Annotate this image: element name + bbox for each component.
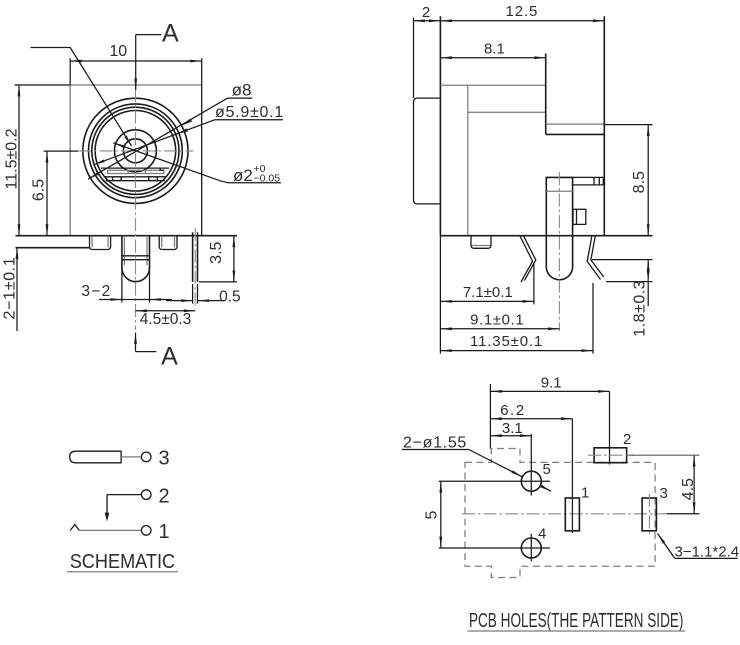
- svg-text:11.35±0.1: 11.35±0.1: [470, 333, 543, 350]
- svg-text:6.5: 6.5: [31, 179, 48, 201]
- shield tab square: [573, 209, 586, 224]
- barrel centerline: [558, 172, 560, 331]
- side inner horizontal line: [468, 111, 546, 113]
- pcb main centerline: [462, 513, 667, 515]
- left pin: [90, 236, 111, 250]
- contact plate gray band: [108, 170, 164, 173]
- housing box right edge: [201, 85, 203, 236]
- side body top edge: [440, 84, 545, 86]
- dimension 8.1: [440, 57, 545, 59]
- svg-text:10: 10: [109, 43, 127, 60]
- svg-text:11.5±0.2: 11.5±0.2: [4, 128, 21, 189]
- dimension 2-1±0.1: [16, 248, 18, 331]
- housing ring circle: [88, 104, 182, 198]
- flange top line: [16, 235, 238, 237]
- svg-text:ø5.9±0.1: ø5.9±0.1: [215, 104, 284, 121]
- svg-text:5: 5: [543, 461, 551, 478]
- dimension 9.1±0.1: [440, 328, 559, 330]
- svg-text:1.8±0.3: 1.8±0.3: [632, 280, 649, 337]
- svg-text:8.5: 8.5: [631, 171, 648, 193]
- wire pin2 with switch arrow: [107, 494, 141, 496]
- svg-text:4.5±0.3: 4.5±0.3: [140, 311, 192, 328]
- side inner vertical divider: [467, 85, 469, 235]
- dimension 3.5: [233, 236, 235, 282]
- contact bump left: [112, 177, 121, 181]
- svg-text:8.1: 8.1: [484, 41, 505, 58]
- side step edge vertical: [545, 54, 547, 135]
- housing box left edge: [69, 85, 71, 236]
- housing ring circle 2: [92, 107, 179, 194]
- dimension 9.1 (pcb): [490, 390, 609, 392]
- hole 5 circle: [521, 471, 541, 491]
- flange bottom line: [16, 247, 90, 249]
- dimension 6.2 (pcb): [490, 418, 572, 420]
- barrel circle o8 outer: [83, 98, 188, 203]
- pcb dashed outline: [465, 449, 655, 578]
- dimension 7.1±0.1: [440, 300, 534, 302]
- dimension 4.5±0.3: [136, 310, 196, 312]
- svg-text:4: 4: [538, 526, 546, 543]
- barrel top plate: [573, 176, 604, 178]
- svg-text:3: 3: [159, 448, 170, 470]
- terminal circle 3: [141, 452, 151, 462]
- dimension 8.5: [647, 125, 649, 236]
- section marker A bottom: [136, 351, 157, 353]
- hole 3 rect: [642, 498, 656, 531]
- svg-text:5: 5: [424, 510, 441, 519]
- hole 1 rect: [565, 498, 579, 531]
- hole 5 cross lines: [439, 480, 550, 482]
- vertical centerline: [135, 89, 137, 330]
- side right edge: [603, 16, 605, 235]
- dimension 2 (side): [414, 20, 441, 22]
- dimension 10: [70, 60, 202, 62]
- svg-text:3.5: 3.5: [208, 241, 225, 263]
- ext line 8.5 top: [604, 124, 652, 126]
- svg-text:12.5: 12.5: [506, 3, 539, 20]
- svg-text:SCHEMATIC: SCHEMATIC: [70, 550, 175, 573]
- center pin barrel: [546, 177, 572, 279]
- svg-text:2−1±0.1: 2−1±0.1: [2, 256, 19, 319]
- center pin circle o2: [123, 139, 147, 163]
- dimension 3-2: [99, 299, 122, 301]
- dimension 12.5: [440, 20, 604, 22]
- wire pin3: [121, 456, 141, 458]
- svg-text:9.1: 9.1: [541, 374, 562, 391]
- barrel gray line: [546, 190, 572, 192]
- right bent leg: [587, 236, 600, 280]
- terminal circle 1: [141, 526, 151, 536]
- svg-text:PCB HOLES(THE PATTERN SIDE): PCB HOLES(THE PATTERN SIDE): [469, 608, 684, 632]
- leader to center pin top-left: [31, 48, 132, 147]
- housing box top edge: [70, 84, 202, 86]
- svg-text:3−2: 3−2: [81, 283, 111, 300]
- wire pin1: [79, 529, 141, 531]
- svg-text:4.5: 4.5: [680, 478, 697, 500]
- shield top gray edge: [546, 123, 605, 125]
- svg-text:2: 2: [159, 485, 170, 507]
- 6.5 extension line horizontal: [44, 150, 79, 152]
- dimension 11.35±0.1: [440, 350, 593, 352]
- right pin: [159, 236, 177, 250]
- switch contact chevron: [70, 525, 79, 531]
- svg-text:1: 1: [159, 521, 170, 543]
- contact chord line mid: [104, 176, 167, 178]
- section marker A top: [136, 34, 162, 36]
- dimension 5 (pcb): [440, 481, 442, 548]
- side pin edge-on right: [192, 232, 194, 282]
- svg-text:0.5: 0.5: [219, 288, 241, 305]
- terminal circle 2: [141, 490, 151, 500]
- contact bump right: [149, 177, 158, 181]
- hole 2 rect: [594, 448, 627, 463]
- dimension 1.8±0.3: [647, 260, 649, 282]
- shield top black edge: [546, 133, 605, 135]
- pin holder circle: [114, 130, 156, 172]
- dimension 0.5: [166, 300, 193, 302]
- svg-text:A: A: [162, 19, 179, 47]
- contact chord line bottom: [105, 180, 164, 182]
- side flange rounded: [414, 98, 441, 204]
- side small pin: [471, 236, 491, 249]
- dimension 6.5: [46, 151, 48, 236]
- barrel circle o5.9: [95, 111, 176, 192]
- center pin with U bottom: [122, 236, 150, 282]
- svg-text:A: A: [161, 343, 178, 371]
- side body left edge: [439, 16, 441, 235]
- svg-text:6.2: 6.2: [500, 402, 525, 419]
- svg-text:2: 2: [422, 4, 430, 21]
- svg-text:ø8: ø8: [232, 80, 252, 99]
- svg-text:3.1: 3.1: [502, 420, 523, 437]
- svg-text:2: 2: [623, 431, 631, 448]
- side body bottom line: [440, 235, 652, 237]
- left bent leg: [520, 236, 533, 282]
- svg-text:9.1±0.1: 9.1±0.1: [470, 312, 524, 329]
- dimension 11.5±0.2: [18, 85, 20, 236]
- dimension 4.5 (pcb): [693, 455, 695, 514]
- svg-text:3: 3: [660, 485, 668, 502]
- horizontal centerline: [78, 150, 193, 152]
- contact chord line top: [101, 167, 169, 169]
- side pin centerline: [194, 228, 196, 309]
- dimension 3.1 (pcb): [490, 435, 531, 437]
- pin 3 sleeve pill: [70, 451, 121, 463]
- svg-text:7.1±0.1: 7.1±0.1: [463, 284, 513, 301]
- svg-text:1: 1: [581, 485, 589, 502]
- hole 4 circle: [521, 538, 541, 558]
